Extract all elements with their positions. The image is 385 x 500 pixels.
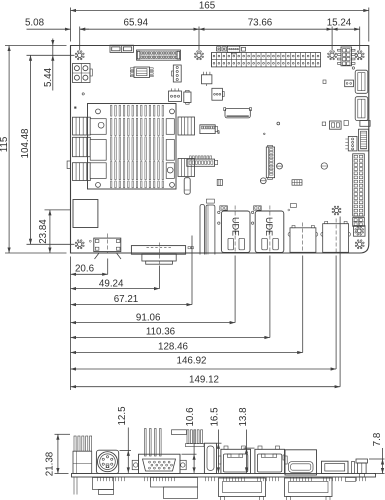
- left edge tab: [67, 161, 70, 169]
- dim 5.08: [25, 17, 89, 30]
- header CN5 4-pin vertical: [172, 65, 182, 82]
- small box CN14: [345, 80, 354, 87]
- hole small: [277, 122, 280, 125]
- VGA connector CN25 (top view): [131, 243, 185, 265]
- PS/2 connector CN24 (top view): [89, 234, 121, 260]
- left extension lines: [5, 46, 75, 254]
- dim 7.8: [369, 432, 385, 473]
- svg-text:23.84: 23.84: [38, 219, 49, 244]
- DIO header CN3 (2x22 grid): [212, 53, 321, 67]
- board outline (top view): [71, 46, 369, 254]
- SATA connector CN13: [355, 97, 368, 121]
- tiny square right: [323, 80, 326, 84]
- RF jack J1: [354, 226, 366, 237]
- dim 12.5: [117, 406, 131, 473]
- DVI connector (rear view): [204, 443, 216, 473]
- USB block CN19 (top view): [288, 223, 318, 253]
- svg-text:91.06: 91.06: [136, 312, 161, 323]
- box CN11 3-pin: [212, 88, 224, 100]
- svg-text:104.48: 104.48: [20, 128, 31, 159]
- DVI connector CN23 (vertical, top view): [200, 199, 215, 254]
- under-board box A: [219, 478, 266, 500]
- under-board rect mid: [151, 478, 198, 499]
- svg-text:5.08: 5.08: [25, 17, 45, 28]
- LAN jack 2 (rear view): [255, 446, 287, 474]
- wafer CN6 3-pin: [169, 88, 182, 101]
- dim 15.24: [327, 17, 360, 30]
- LVDS connector CN9: [266, 145, 274, 179]
- header block CN18: [353, 218, 365, 227]
- svg-text:7.8: 7.8: [372, 432, 383, 446]
- tiny DIP U3: [292, 180, 302, 186]
- hole extension lines up: [80, 27, 360, 51]
- connector CN10 (rounded): [224, 108, 252, 118]
- header CN16 4-pin: [345, 136, 357, 151]
- wafer connector CN2 5-pin: [227, 46, 240, 54]
- mounting hole H5: [75, 240, 84, 249]
- svg-text:165: 165: [199, 0, 216, 11]
- transistor Q1: [202, 72, 212, 86]
- svg-text:20.6: 20.6: [75, 263, 95, 274]
- svg-text:146.92: 146.92: [177, 356, 207, 367]
- tiny part above CN19: [288, 204, 297, 211]
- FPC connector CN15: [359, 129, 369, 151]
- inductor L1 (left of heatsink): [73, 117, 91, 135]
- connector CN1 dual box (top edge left): [110, 45, 134, 52]
- svg-text:16.5: 16.5: [209, 407, 220, 427]
- svg-text:13.8: 13.8: [238, 407, 249, 427]
- dim 5.44: [43, 39, 54, 91]
- PS/2 connector (rear view): [96, 450, 118, 473]
- jumper JP1 (tiny parts near hole H2): [217, 47, 227, 51]
- dim 110.36: [71, 327, 270, 339]
- rear panel PCB bar: [72, 474, 376, 478]
- tiny part cd: [188, 247, 193, 249]
- svg-text:128.46: 128.46: [158, 342, 189, 353]
- pins above VGA: [145, 429, 162, 457]
- mounting hole H6: [355, 240, 364, 249]
- heatsink screws: [96, 109, 175, 187]
- svg-text:15.24: 15.24: [327, 17, 352, 28]
- under-board box B: [285, 478, 333, 500]
- dim 115: [0, 46, 11, 254]
- svg-text:10.6: 10.6: [185, 407, 196, 427]
- SATA (rear view): [352, 459, 368, 477]
- mounting hole H2: [195, 51, 204, 60]
- dim 149.12: [71, 375, 341, 389]
- washer W2: [260, 178, 266, 184]
- mounting hole H1: [75, 51, 84, 60]
- wafer CN7: [200, 125, 219, 134]
- tiny part right of CN2: [242, 47, 246, 51]
- LAN jack CN22 (RJ45, UDE): [251, 206, 283, 253]
- audio/comb element (leftmost): [73, 436, 92, 495]
- small part right of CN6 (SOT): [184, 90, 191, 104]
- dim 104.48: [20, 55, 32, 244]
- dim 49.24: [71, 279, 160, 291]
- mounting hole H3: [328, 51, 337, 60]
- svg-text:73.66: 73.66: [248, 17, 273, 28]
- dim 21.38: [44, 434, 70, 476]
- via dots: [218, 132, 265, 135]
- mounting hole H4: [355, 51, 364, 60]
- dim 165: [71, 0, 369, 12]
- svg-text:21.38: 21.38: [44, 451, 55, 476]
- dim 146.92: [71, 356, 337, 371]
- svg-text:49.24: 49.24: [99, 279, 124, 290]
- heatsink HS1: [88, 104, 177, 190]
- tiny dot: [75, 107, 77, 109]
- dim 73.66: [199, 17, 332, 30]
- dim 13.8: [238, 407, 255, 473]
- inductor L4 (right of heatsink): [178, 117, 195, 135]
- dim 165 extension lines: [71, 8, 369, 42]
- front panel header CN17 (2x15): [353, 154, 365, 216]
- dim 16.5: [209, 407, 221, 473]
- inductor L5: [178, 159, 195, 177]
- LAN jack 1 (rear view): [218, 446, 250, 474]
- dim 128.46: [71, 342, 303, 354]
- USB block CN20 (top view): [321, 219, 351, 253]
- power connector CN4 (2x2 ATX): [73, 64, 93, 83]
- connector block (rear view): [322, 461, 349, 473]
- svg-text:149.12: 149.12: [189, 375, 219, 386]
- under-board step block: [93, 478, 114, 495]
- chain feature extension lines: [108, 217, 340, 387]
- LVDS inverter box (bottom-left): [73, 200, 98, 228]
- washer component: [321, 163, 327, 169]
- washer W1: [277, 163, 283, 169]
- inductor L2: [73, 137, 91, 156]
- svg-text:115: 115: [0, 136, 10, 152]
- connector FDD1 (top edge): [137, 50, 181, 60]
- mounting hole H7: [332, 206, 341, 215]
- svg-text:65.94: 65.94: [124, 17, 149, 28]
- DIP switch U2 (between H3 and H4): [338, 47, 356, 69]
- capacitor C1: [184, 178, 190, 195]
- tiny circle component: [82, 93, 84, 95]
- dim 65.94: [80, 17, 199, 30]
- svg-text:110.36: 110.36: [146, 327, 176, 338]
- dim 23.84: [38, 210, 51, 253]
- dim 67.21: [71, 294, 193, 306]
- VGA connector (rear view): [132, 454, 186, 473]
- dim 20.6: [71, 263, 108, 276]
- svg-text:5.44: 5.44: [43, 67, 54, 87]
- LAN jack CN21 (RJ45, UDE): [218, 206, 250, 253]
- USB stack (rear view): [283, 450, 317, 475]
- small barrel component: [217, 180, 222, 186]
- inductor L3: [73, 163, 91, 181]
- dim 91.06: [71, 312, 236, 324]
- solder pin ticks: [98, 477, 366, 481]
- comb bracket above: [172, 430, 205, 447]
- chain left extension line: [70, 257, 72, 391]
- under-board small right: [346, 478, 356, 482]
- wafer CN8: [187, 156, 218, 166]
- svg-text:12.5: 12.5: [117, 406, 128, 426]
- svg-text:67.21: 67.21: [114, 294, 139, 305]
- svg-text:UDE: UDE: [264, 217, 274, 236]
- IC U1 (SOIC with legs): [130, 67, 153, 78]
- SATA connector CN12: [355, 70, 368, 93]
- component cluster right mid: [322, 121, 370, 130]
- dim 10.6: [182, 407, 197, 473]
